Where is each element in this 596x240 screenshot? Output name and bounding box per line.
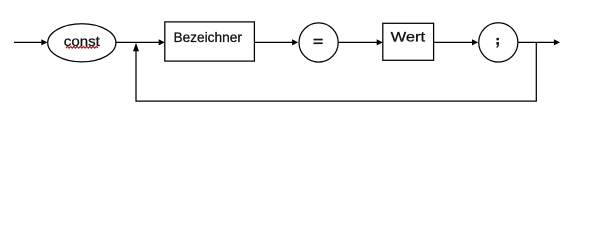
svg-text:const: const bbox=[64, 33, 100, 49]
svg-text:Bezeichner: Bezeichner bbox=[173, 30, 242, 45]
svg-text:Wert: Wert bbox=[391, 28, 426, 44]
